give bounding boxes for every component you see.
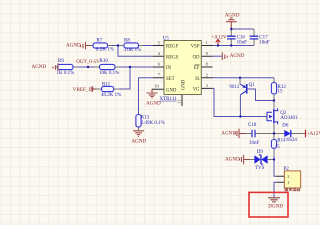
wire row3 segments — [78, 66, 153, 68]
wire row1 AGND to REGF — [113, 45, 154, 47]
resistor R11 — [101, 82, 121, 98]
capacitor C16 — [227, 35, 247, 45]
svg-text:R8: R8 — [124, 39, 130, 44]
svg-text:SS34: SS34 — [286, 138, 297, 143]
power port +A12V top — [211, 35, 227, 46]
ground AGND row3 — [32, 63, 59, 71]
lead C16 — [230, 29, 232, 46]
svg-text:15: 15 — [278, 90, 284, 95]
connector P2 — [284, 167, 301, 191]
svg-text:1K 0.1%: 1K 0.1% — [57, 71, 75, 76]
resistor R9 — [57, 59, 75, 76]
wire VG to gate — [213, 88, 268, 116]
lead C17 — [253, 29, 255, 46]
svg-text:D9: D9 — [257, 150, 264, 155]
lead R7 left — [90, 45, 144, 47]
wire Q1 collector to VG wire — [239, 95, 241, 117]
svg-text:AGND: AGND — [32, 64, 47, 70]
svg-text:AGND: AGND — [221, 130, 236, 136]
resistor R10 — [99, 59, 119, 76]
wire R11 to IN junction — [119, 67, 130, 89]
pin stubs right of U5 — [202, 46, 213, 89]
wire VREF_IN port lead — [93, 88, 97, 90]
svg-text:Q1: Q1 — [249, 83, 256, 88]
capacitor C18 — [248, 123, 260, 146]
wire VSP row right — [213, 45, 255, 47]
svg-text:VSP: VSP — [191, 45, 200, 50]
svg-text:11: 11 — [177, 99, 182, 104]
svg-text:D6: D6 — [282, 123, 289, 128]
lead TVS — [249, 159, 274, 161]
lead AGND row1 red — [86, 45, 91, 47]
wire IS row to R12 — [213, 77, 275, 79]
svg-text:AGND: AGND — [230, 53, 245, 59]
wire cap top rail — [231, 28, 254, 30]
transistor Q2 AO3401 — [267, 108, 298, 124]
lead R12 — [273, 78, 275, 101]
svg-text:SET: SET — [166, 77, 175, 82]
wire SET to R13 — [139, 78, 154, 115]
svg-text:+A12V: +A12V — [211, 35, 227, 41]
resistor R8 — [124, 39, 142, 54]
wire R14 to TVS junction — [273, 155, 275, 160]
ground AGND at OD pin — [222, 52, 244, 60]
svg-text:DGND: DGND — [268, 203, 283, 209]
svg-text:AGND: AGND — [66, 42, 81, 48]
diode D9 TVS — [254, 150, 267, 171]
lead C18 right — [255, 133, 274, 135]
svg-text:VREF_IN: VREF_IN — [73, 87, 94, 93]
resistor R14 — [271, 138, 286, 150]
P2 pin stubs — [276, 176, 284, 182]
ground AGND below R13 — [132, 131, 147, 145]
svg-text:P2: P2 — [284, 167, 290, 172]
resistor R7 — [93, 39, 114, 53]
ground AGND at TVS — [225, 155, 244, 165]
wire REGS branch — [118, 46, 153, 57]
transistor Q1 9012 — [229, 83, 255, 95]
ground AGND at U5 GND pin — [146, 89, 161, 106]
ground AGND top (caps) — [225, 13, 240, 29]
svg-text:AGND: AGND — [225, 157, 240, 163]
svg-text:TVS: TVS — [255, 166, 265, 171]
pin 11 stub — [181, 95, 183, 107]
svg-text:REGF: REGF — [166, 45, 179, 50]
resistor R12 — [271, 83, 286, 95]
wire Q1 base to R12 bottom — [247, 89, 274, 101]
svg-text:U5: U5 — [163, 36, 170, 41]
op-amp U5 XTR111 body — [164, 41, 201, 95]
svg-text:EF: EF — [194, 66, 200, 71]
svg-text:40.2K 1%: 40.2K 1% — [101, 93, 121, 98]
svg-text:GND: GND — [181, 79, 186, 90]
lead R13 bottom — [138, 127, 140, 131]
red highlight box — [249, 192, 288, 217]
svg-text:AO3401: AO3401 — [280, 116, 298, 121]
svg-text:3.0K 1%: 3.0K 1% — [124, 48, 142, 53]
svg-text:R11: R11 — [102, 82, 111, 87]
lead R9 R10 — [56, 66, 120, 68]
svg-text:R13: R13 — [141, 116, 150, 121]
lead mosfet drain chain — [273, 101, 275, 134]
svg-text:8.2K 1%: 8.2K 1% — [96, 48, 114, 53]
svg-text:IS: IS — [195, 77, 200, 82]
ground AGND row1 — [66, 42, 86, 50]
svg-text:OD: OD — [193, 55, 200, 60]
power port +A12V right — [306, 130, 320, 137]
pin stubs left of U5 — [152, 46, 164, 90]
wire P2 pin1 to DGND — [274, 182, 276, 198]
port VREF_IN — [73, 86, 94, 93]
lead D6 — [274, 133, 305, 135]
svg-text:10nF: 10nF — [259, 41, 270, 46]
ground DGND — [268, 198, 283, 210]
svg-text:R10: R10 — [100, 59, 109, 64]
svg-text:R7: R7 — [97, 39, 103, 44]
wire TVS to P2 pin2 — [274, 160, 276, 177]
svg-text:OUT_0-5V: OUT_0-5V — [76, 59, 100, 65]
lead R11 — [97, 88, 119, 90]
diode D6 SS34 — [282, 123, 297, 143]
svg-text:R9: R9 — [58, 59, 64, 64]
svg-text:10nF: 10nF — [249, 141, 260, 146]
lead Q1 emitter — [239, 78, 241, 84]
lead R14 — [273, 134, 275, 156]
wire OD to AGND — [213, 55, 223, 57]
svg-text:10: 10 — [154, 84, 159, 89]
resistor R13 — [136, 115, 165, 128]
svg-text:10K 0.1%: 10K 0.1% — [99, 71, 119, 76]
svg-text:IN: IN — [166, 66, 172, 71]
svg-text:R14: R14 — [277, 138, 286, 143]
svg-text:AGND: AGND — [225, 13, 240, 19]
svg-text:9012: 9012 — [229, 85, 240, 90]
svg-text:REGS: REGS — [166, 55, 179, 60]
svg-text:+A12V: +A12V — [307, 131, 320, 137]
svg-text:15: 15 — [275, 145, 281, 150]
svg-text:VG: VG — [193, 88, 200, 93]
svg-text:10uF: 10uF — [237, 41, 248, 46]
svg-text:GND: GND — [166, 88, 177, 93]
svg-text:AGND: AGND — [146, 101, 161, 107]
capacitor C17 — [250, 35, 270, 45]
svg-text:C18: C18 — [248, 123, 257, 128]
svg-text:AGND: AGND — [132, 138, 147, 144]
ground AGND at C18 — [221, 129, 239, 139]
lead C18 left + AGND red — [245, 133, 252, 135]
svg-text:2.49K 0.1%: 2.49K 0.1% — [141, 121, 165, 126]
